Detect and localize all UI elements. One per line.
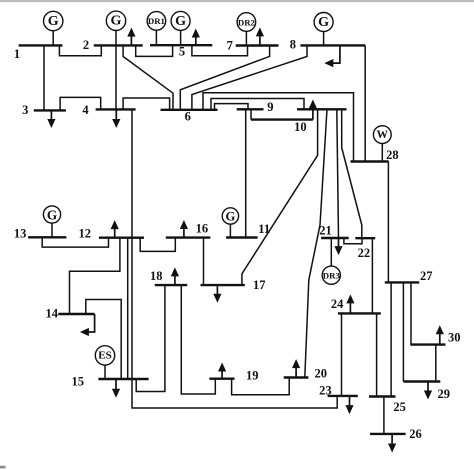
svg-text:8: 8 xyxy=(290,38,296,52)
svg-text:27: 27 xyxy=(420,269,433,283)
svg-text:G: G xyxy=(175,14,186,29)
svg-text:10: 10 xyxy=(294,120,307,134)
svg-text:3: 3 xyxy=(22,103,28,117)
svg-text:ES: ES xyxy=(98,350,111,362)
svg-text:12: 12 xyxy=(79,226,92,240)
svg-text:21: 21 xyxy=(319,223,332,237)
svg-text:1: 1 xyxy=(14,47,20,61)
svg-text:5: 5 xyxy=(179,45,185,59)
svg-text:14: 14 xyxy=(46,307,59,321)
svg-text:G: G xyxy=(318,15,329,30)
svg-text:16: 16 xyxy=(196,222,209,236)
svg-text:25: 25 xyxy=(393,400,406,414)
svg-text:20: 20 xyxy=(314,366,327,380)
svg-text:29: 29 xyxy=(438,387,451,401)
svg-text:W: W xyxy=(377,129,389,141)
svg-text:19: 19 xyxy=(246,369,259,383)
svg-text:13: 13 xyxy=(14,226,27,240)
svg-text:11: 11 xyxy=(258,222,270,236)
svg-text:G: G xyxy=(47,207,57,222)
svg-text:30: 30 xyxy=(448,331,461,345)
svg-text:23: 23 xyxy=(319,384,332,398)
svg-text:9: 9 xyxy=(267,100,273,114)
svg-text:7: 7 xyxy=(227,39,233,53)
svg-text:17: 17 xyxy=(253,278,266,292)
svg-text:4: 4 xyxy=(82,103,89,117)
svg-text:24: 24 xyxy=(331,297,344,311)
svg-text:G: G xyxy=(48,14,59,29)
svg-text:22: 22 xyxy=(358,246,371,260)
svg-text:26: 26 xyxy=(409,427,422,441)
svg-text:DR2: DR2 xyxy=(238,17,256,27)
svg-text:18: 18 xyxy=(150,269,163,283)
svg-text:DR3: DR3 xyxy=(323,271,341,281)
svg-text:6: 6 xyxy=(185,110,191,124)
svg-text:G: G xyxy=(226,209,236,223)
svg-text:DR1: DR1 xyxy=(148,16,165,26)
svg-text:28: 28 xyxy=(386,148,399,162)
svg-text:G: G xyxy=(111,14,122,29)
svg-text:2: 2 xyxy=(83,38,89,52)
svg-text:15: 15 xyxy=(71,375,84,389)
